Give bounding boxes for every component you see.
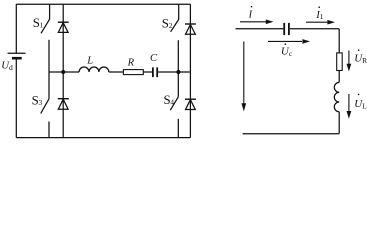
diode D1 line [62, 4, 64, 72]
current arrow I shaft [240, 21, 268, 23]
top rail [16, 3, 190, 5]
switch S3 bottom lead [48, 122, 50, 138]
voltage arrow Uc shaft [268, 40, 302, 42]
battery Ud short plate [12, 57, 22, 60]
voltage arrow UL shaft [348, 94, 350, 112]
diode D4 line [189, 72, 191, 138]
switch S4 blade [170, 97, 178, 110]
svg-text:S1: S1 [33, 16, 44, 30]
diode D4 bar [185, 98, 196, 100]
svg-text:Ud: Ud [1, 59, 13, 72]
wire coil to bottom corner [338, 112, 340, 134]
switch S1 blade [41, 19, 50, 33]
capacitor C left plate [152, 67, 154, 77]
svg-text:R: R [127, 58, 135, 69]
arrowhead source arrow [241, 103, 246, 111]
right circuit bottom wire [243, 133, 340, 135]
dot over Uc [285, 43, 287, 45]
wire resistor to capacitor [143, 71, 152, 73]
wire inductor to resistor [109, 71, 124, 73]
svg-text:C: C [150, 53, 158, 64]
switch S4 bottom lead [177, 119, 179, 138]
diode D3 triangle [58, 99, 68, 109]
dot over UR [358, 49, 360, 51]
switch S3 blade [41, 99, 49, 114]
diode D2 bar [185, 23, 196, 25]
arrowhead current I1 [327, 20, 335, 25]
battery Ud long plate [8, 52, 26, 54]
diode D2 line [189, 4, 191, 72]
svg-text:S2: S2 [162, 17, 173, 31]
capacitor C right plate [156, 67, 158, 77]
resistor R box [123, 70, 143, 75]
svg-text:UL: UL [354, 98, 367, 111]
wire resistor to coil [338, 71, 340, 83]
right branch wire upper [338, 29, 340, 53]
wire midpoint left to inductor [49, 71, 79, 73]
wire S2 to S4 [177, 40, 179, 97]
source arrow left shaft [243, 42, 245, 104]
switch S2 top lead [178, 4, 180, 19]
diode D3 line [62, 72, 64, 138]
dot over UL [358, 94, 360, 96]
voltage arrow UR shaft [348, 51, 350, 65]
svg-text:L: L [86, 56, 93, 67]
arrowhead UL [347, 111, 352, 119]
switch S2 blade [171, 19, 179, 31]
diode D1 triangle [58, 23, 68, 33]
inductor coil right circuit [334, 82, 339, 111]
svg-text:Uc: Uc [281, 46, 293, 59]
current arrow I1 shaft [306, 21, 328, 23]
svg-text:I1: I1 [315, 10, 324, 21]
diode D2 triangle [186, 25, 196, 35]
right capacitor right plate [288, 23, 290, 35]
resistor box right circuit [337, 53, 343, 71]
wire S1 to S3 [48, 40, 50, 99]
dot over I1 [318, 6, 320, 8]
right circuit top wire [236, 28, 284, 30]
svg-text:S4: S4 [164, 93, 175, 107]
inductor L coil [79, 67, 109, 72]
arrowhead UR [347, 64, 352, 72]
dot over I [251, 6, 253, 8]
node right midpoint dot [176, 70, 180, 74]
svg-text:I: I [248, 10, 253, 21]
diode D4 triangle [186, 100, 196, 110]
wire left dc link upper [15, 4, 17, 53]
bottom rail [16, 137, 190, 139]
arrowhead current I [266, 20, 274, 25]
diode D1 bar [58, 21, 69, 23]
wire capacitor to right leg [158, 71, 190, 73]
right capacitor left plate [283, 23, 285, 35]
arrowhead voltage Uc [302, 39, 310, 44]
wire capacitor to corner [290, 28, 339, 30]
wire left dc link lower [15, 58, 17, 137]
svg-text:S3: S3 [32, 94, 43, 108]
diode D3 bar [58, 98, 69, 100]
svg-text:UR: UR [354, 53, 367, 66]
node left midpoint dot [61, 70, 65, 74]
switch S1 top lead [49, 4, 51, 19]
